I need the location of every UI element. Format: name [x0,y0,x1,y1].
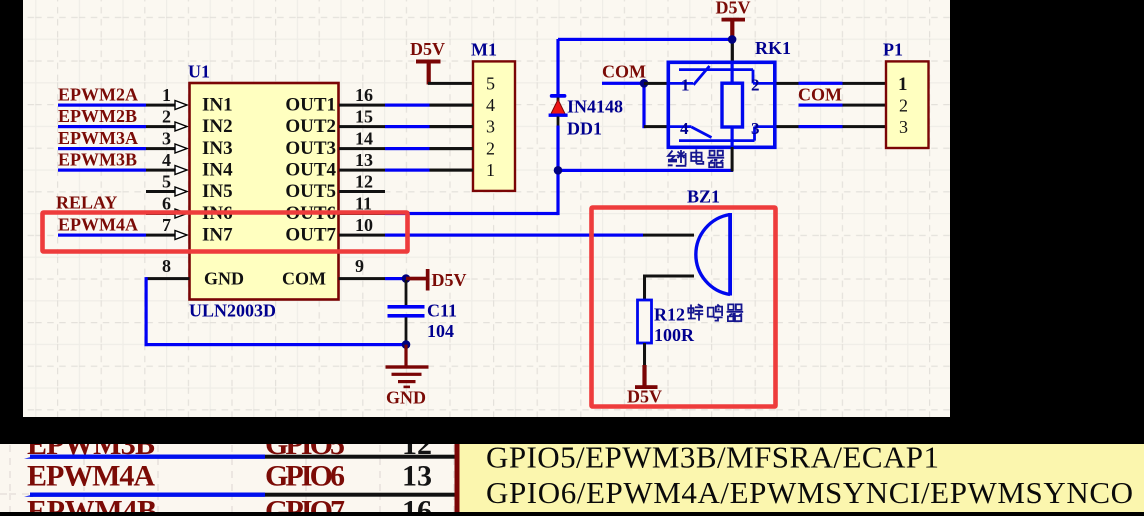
svg-text:9: 9 [355,256,364,276]
svg-text:13: 13 [355,150,373,170]
svg-text:IN1: IN1 [202,95,233,116]
designator P1 [883,40,903,60]
pin COM stub [339,277,407,280]
pin numbers 16-10 and 9 right [355,85,373,276]
net label COM (relay side) [602,62,646,82]
svg-text:2: 2 [899,96,908,116]
ground GND symbol [386,345,429,408]
wire EPWM4A to IN7 [58,234,177,237]
svg-text:16: 16 [355,85,373,105]
svg-text:3: 3 [899,117,908,137]
junction C11 bottom [402,340,411,349]
svg-text:2: 2 [486,139,495,159]
svg-text:EPWM2B: EPWM2B [58,106,137,126]
svg-text:3: 3 [486,117,495,137]
svg-text:BZ1: BZ1 [687,187,720,207]
M1 pin stubs [430,104,474,172]
P1 pin numbers [898,74,908,137]
svg-text:EPWM4A: EPWM4A [58,215,138,235]
value 100R [654,325,695,345]
label IN4148 [567,97,623,117]
svg-text:IN5: IN5 [202,181,233,202]
svg-text:1: 1 [162,85,171,105]
svg-text:14: 14 [355,129,373,149]
pin GND stub [146,277,190,280]
wire relay net horizontal [558,169,733,172]
svg-text:RK1: RK1 [755,38,791,58]
svg-text:OUT1: OUT1 [285,95,336,116]
bottom IC yellow body [460,444,1144,512]
svg-text:15: 15 [355,107,373,127]
svg-text:2: 2 [751,76,760,95]
svg-text:5: 5 [162,172,171,192]
net label RELAY [56,193,117,213]
input pin arrows IN1-IN7 [175,101,187,240]
bottom wire row 2 [24,493,455,497]
bottom net label EPWM3B (cut) [27,428,155,461]
bottom net label EPWM4A [27,460,155,493]
bottom pin number 13 [402,460,432,493]
junction at D5V/coil [728,35,737,44]
svg-text:12: 12 [355,172,373,192]
connector P1 body [886,61,929,148]
designator U1 [188,62,210,82]
svg-text:EPWM3B: EPWM3B [58,150,137,170]
resistor R12 [638,300,652,343]
wire D5V to diode top [558,38,733,41]
bottom pin number 12 (cut) [402,428,432,461]
svg-text:OUT2: OUT2 [285,116,336,137]
svg-text:IN7: IN7 [202,225,233,246]
svg-text:1: 1 [681,76,690,95]
svg-text:5: 5 [486,74,495,94]
svg-text:D5V: D5V [716,0,751,18]
svg-text:4: 4 [162,150,171,170]
svg-text:GND: GND [386,388,426,408]
svg-text:13: 13 [402,460,432,493]
wire relay pin3 to P1 pin3 [799,125,887,128]
bottom fragment panel background [0,444,1144,512]
net label EPWM3A [58,128,138,148]
svg-text:OUT5: OUT5 [285,181,336,202]
relay pin2 stub [777,82,799,85]
pin OUT3 stub [339,147,474,150]
junction diode bottom [554,166,563,175]
bottom wire row 1 [24,455,455,459]
designator BZ1 [687,187,720,207]
pin number 8 [162,256,171,276]
net label EPWM2B [58,106,137,126]
svg-text:D5V: D5V [410,39,445,59]
wire EPWM3A to IN3 [58,147,177,150]
svg-text:U1: U1 [188,62,210,82]
pin OUT6 stub and wire to relay [339,212,558,215]
buzzer BZ1 [696,213,732,296]
svg-text:3: 3 [751,119,760,138]
power D5V (buzzer) [627,343,662,407]
svg-text:D5V: D5V [627,387,662,407]
power D5V (COM pin) [406,269,467,291]
svg-text:GPIO6: GPIO6 [265,460,345,493]
relay RK1 body [667,62,777,147]
designator M1 [471,40,497,60]
value 104 [427,321,454,341]
relay coil pins to D5V and relay net [731,147,734,172]
svg-text:COM: COM [602,62,646,82]
svg-text:OUT7: OUT7 [285,225,336,246]
pin OUT2 stub [339,125,474,128]
svg-text:EPWM4A: EPWM4A [27,460,155,493]
wire EPWM2B to IN2 [58,125,177,128]
buzzer bottom stub [643,275,694,302]
wire COM to relay [602,82,646,129]
svg-text:IN4148: IN4148 [567,97,623,117]
svg-text:M1: M1 [471,40,497,60]
svg-text:GPIO5/EPWM3B/MFSRA/ECAP1: GPIO5/EPWM3B/MFSRA/ECAP1 [486,440,939,475]
svg-text:1: 1 [486,160,495,180]
pin names OUT1-OUT7, COM [282,95,336,289]
svg-text:7: 7 [162,215,171,235]
svg-text:1: 1 [898,74,908,95]
wire D5V to M1 pin5 [428,82,473,85]
pin OUT7 stub and wire to buzzer [339,234,694,237]
designator DD1 [567,119,602,139]
black bottom strip [0,512,1144,516]
svg-text:IN3: IN3 [202,138,233,159]
wire COM to P1 pin2 [799,104,887,107]
wire pin9 to C11 junction [402,274,411,283]
label C11 [427,301,457,321]
pin OUT1 stub [339,104,474,107]
svg-text:IN2: IN2 [202,116,233,137]
net label EPWM4A [58,215,138,235]
bottom pin name GPIO5 (cut) [265,428,345,461]
bottom net label EPWM4B (cut) [27,495,157,516]
M1 pin numbers [486,74,495,181]
connector M1 body [473,61,515,191]
pin numbers 1-7 left [162,85,171,235]
svg-text:COM: COM [798,85,842,105]
highlight box 2 (buzzer) [592,208,776,407]
svg-text:COM: COM [282,269,326,289]
svg-text:OUT4: OUT4 [285,160,336,181]
relay pin3 stub [777,125,799,128]
main schematic panel background [23,0,950,417]
pin OUT4 stub [339,169,474,172]
IC U1 body [190,83,339,300]
junction COM [640,79,649,88]
black divider band [0,417,1144,444]
svg-text:100R: 100R [654,325,695,345]
power D5V (relay coil) [716,0,751,61]
wire relay net vertical [556,168,559,215]
part name ULN2003D [189,301,276,321]
bottom pin name GPIO6 [265,460,345,493]
pin IN5 stub [146,190,177,193]
svg-text:RELAY: RELAY [56,193,117,213]
relay pin4 stub [644,125,667,128]
highlight box 1 (EPWM4A row) [43,213,408,252]
svg-text:4: 4 [680,119,689,138]
svg-text:8: 8 [162,256,171,276]
capacitor C11 [388,280,425,344]
bottom IC edge (maroon) [455,444,460,512]
net label EPWM3B [58,150,137,170]
svg-text:10: 10 [355,215,373,235]
wire GND net: down and across [145,277,408,346]
bottom pin function GPIO6/EPWM4A/EPWMSYNCI/EPWMSYNCO [486,475,1133,510]
designator RK1 [755,38,791,58]
label R12 [654,305,685,325]
pin names IN1-IN7 [202,95,244,289]
relay pin numbers [680,76,760,139]
pin OUT5 stub [339,190,385,193]
svg-text:GPIO6/EPWM4A/EPWMSYNCI/EPWMSYN: GPIO6/EPWM4A/EPWMSYNCI/EPWMSYNCO [486,475,1133,510]
bottom pin name GPIO7 (cut) [265,495,345,516]
net label EPWM2A [58,85,138,105]
bottom pin function GPIO5/EPWM3B/MFSRA/ECAP1 [486,440,939,475]
net label COM (P1 side) [798,85,842,105]
svg-text:GND: GND [204,269,244,289]
pin IN6 stub [146,212,177,215]
wire EPWM3B to IN4 [58,169,177,172]
svg-text:4: 4 [486,95,495,115]
svg-text:104: 104 [427,321,454,341]
svg-text:ULN2003D: ULN2003D [189,301,276,321]
svg-text:C11: C11 [427,301,457,321]
wire EPWM2A to IN1 [58,104,177,107]
svg-text:IN4: IN4 [202,160,233,181]
svg-text:EPWM3A: EPWM3A [58,128,138,148]
label 蜂鸣器 [688,304,743,321]
bottom pin number 16 (cut) [402,495,432,516]
svg-text:3: 3 [162,129,171,149]
svg-text:OUT3: OUT3 [285,138,336,159]
diode DD1 IN4148 [549,39,568,171]
comment 继电器 (relay) [668,149,724,167]
svg-text:R12: R12 [654,305,685,325]
svg-text:D5V: D5V [432,270,467,290]
svg-text:2: 2 [162,107,171,127]
wire relay pin2 to P1 pin1 [799,82,887,85]
power D5V (above M1) [410,39,445,85]
svg-text:P1: P1 [883,40,903,60]
svg-text:DD1: DD1 [567,119,602,139]
svg-text:EPWM2A: EPWM2A [58,85,138,105]
relay pin1 stub [644,82,667,85]
